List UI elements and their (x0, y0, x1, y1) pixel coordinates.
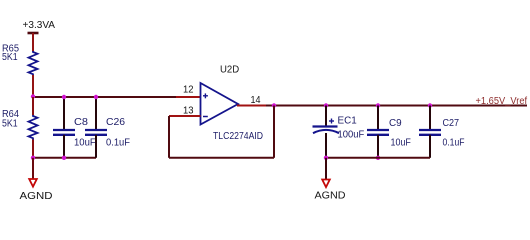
svg-text:0.1uF: 0.1uF (443, 138, 465, 149)
svg-text:5K1: 5K1 (2, 119, 18, 130)
pin 14 output stub wire (237, 105, 268, 107)
capacitor C8 (53, 129, 75, 131)
junction EC1 top (324, 103, 328, 107)
svg-text:0.1uF: 0.1uF (106, 138, 130, 149)
pin 13 stub wire (169, 115, 201, 117)
junction feedback tap (272, 103, 276, 107)
junction C26 top (94, 95, 98, 99)
wire bottom-left rail (33, 157, 96, 159)
wire R64 to bottom rail (32, 140, 34, 158)
svg-text:C8: C8 (74, 117, 88, 128)
svg-text:TLC2274AID: TLC2274AID (213, 131, 263, 142)
wire node A to R64 (32, 97, 34, 115)
svg-text:5K1: 5K1 (2, 52, 18, 63)
wire feedback left vertical (168, 116, 170, 158)
wire C8 bottom lead (63, 135, 65, 158)
junction C8 top (62, 95, 66, 99)
wire bottom-right rail (326, 157, 430, 159)
wire feedback bottom (169, 157, 274, 159)
capacitor C26 (85, 129, 107, 131)
resistor R65 (29, 51, 38, 75)
svg-text:12: 12 (183, 85, 194, 96)
wire C8 top lead (63, 97, 65, 130)
wire C9 bottom lead (377, 135, 379, 158)
op-amp minus input mark (203, 116, 208, 118)
junction C27 top (428, 103, 432, 107)
wire C9 top lead (377, 106, 379, 131)
svg-text:100uF: 100uF (338, 130, 365, 141)
wire top rail node A to op-amp pin 12 (33, 96, 176, 98)
wire R65 to node A (32, 75, 34, 97)
wire to left AGND (32, 158, 34, 180)
ground AGND right symbol (322, 180, 330, 188)
junction C8 bottom (62, 156, 66, 160)
svg-text:C26: C26 (106, 117, 126, 128)
svg-text:10uF: 10uF (74, 138, 96, 149)
op-amp U2D triangle (201, 83, 239, 125)
svg-text:+1.65V_Vref: +1.65V_Vref (476, 96, 528, 107)
junction C9 bottom (376, 156, 380, 160)
svg-text:C27: C27 (443, 118, 460, 129)
capacitor C9 (367, 129, 389, 131)
capacitor EC1 (electrolytic) (313, 125, 338, 127)
node A junction (R65/R64/rail) (31, 94, 35, 98)
wire C26 bottom lead (95, 135, 97, 158)
svg-text:10uF: 10uF (391, 138, 411, 149)
capacitor C27 (419, 129, 441, 131)
wire C27 top lead (429, 106, 431, 131)
resistor R64 (29, 115, 38, 140)
wire output rail to +1.65V_Vref (266, 105, 527, 107)
wire power bar to R65 (32, 33, 34, 52)
svg-text:+3.3VA: +3.3VA (23, 20, 56, 31)
op-amp plus input mark (203, 95, 208, 97)
wire C27 bottom lead (429, 135, 431, 158)
EC1 polarity plus mark (329, 120, 334, 122)
svg-text:AGND: AGND (20, 190, 53, 202)
junction bottom-left (R64/AGND/rail) (31, 156, 35, 160)
junction bottom-right (EC1/AGND/rail) (324, 156, 328, 160)
power bar symbol +3.3VA (28, 32, 39, 35)
svg-text:EC1: EC1 (338, 116, 358, 127)
junction C9 top (376, 103, 380, 107)
pin 12 stub wire (176, 96, 201, 98)
wire C26 top lead (95, 97, 97, 130)
svg-text:U2D: U2D (220, 65, 239, 76)
svg-text:C9: C9 (389, 118, 402, 129)
svg-text:13: 13 (183, 106, 194, 117)
svg-text:14: 14 (251, 95, 261, 106)
svg-text:AGND: AGND (315, 190, 346, 202)
wire feedback right vertical (273, 106, 275, 158)
wire EC1 bottom lead (325, 133, 327, 158)
wire EC1 top lead (325, 106, 327, 127)
wire to right AGND (325, 158, 327, 180)
ground AGND left symbol (29, 179, 37, 187)
